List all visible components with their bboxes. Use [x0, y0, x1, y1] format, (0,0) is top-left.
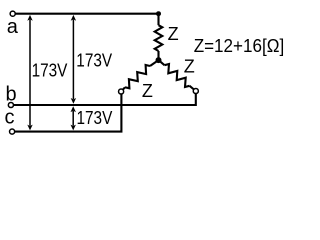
- svg-text:a: a: [7, 16, 19, 38]
- svg-text:Z: Z: [168, 24, 179, 44]
- svg-text:c: c: [5, 106, 15, 128]
- svg-text:Z=12+16[Ω]: Z=12+16[Ω]: [194, 36, 285, 56]
- svg-text:Z: Z: [184, 56, 195, 76]
- svg-text:173V: 173V: [76, 50, 112, 70]
- svg-text:173V: 173V: [32, 60, 68, 80]
- svg-text:173V: 173V: [77, 108, 113, 128]
- svg-text:b: b: [6, 83, 17, 105]
- svg-text:Z: Z: [142, 81, 153, 101]
